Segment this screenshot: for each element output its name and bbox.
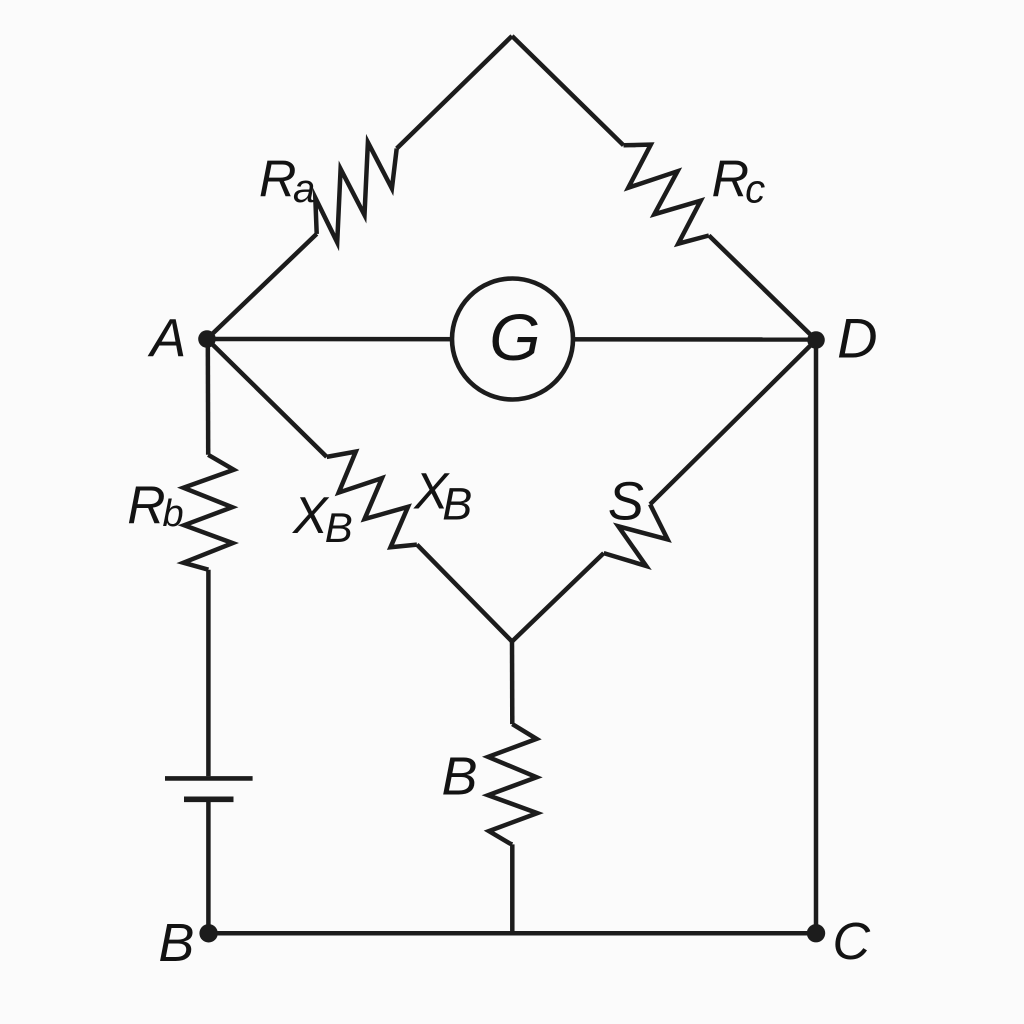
wire node M down to resistor B [510, 642, 515, 725]
svg-text:A: A [147, 309, 186, 369]
svg-text:XB: XB [292, 487, 353, 551]
node D [807, 331, 825, 349]
wire Ra to top apex [397, 36, 512, 149]
wire A to resistor Ra [207, 234, 317, 339]
wire node D to resistor S [650, 340, 816, 504]
svg-text:D: D [837, 307, 877, 370]
wire A to D through galvanometer [207, 337, 816, 342]
wire top apex to resistor Rc [512, 36, 624, 145]
wire battery to node B [206, 802, 211, 933]
resistor S [604, 504, 668, 566]
wire Rb to battery [206, 570, 211, 777]
svg-text:B: B [158, 913, 194, 973]
svg-text:Ra: Ra [259, 151, 315, 211]
battery short plate [184, 796, 234, 802]
wire A to resistor XB [207, 339, 327, 457]
wire Rc to node D [709, 236, 816, 341]
node A [198, 330, 216, 348]
resistor Rb [183, 455, 233, 570]
wire resistor B to bottom wire [510, 844, 515, 933]
svg-text:C: C [833, 913, 871, 971]
wire A down to resistor Rb [206, 339, 211, 455]
wire node D to node C [814, 340, 819, 933]
galvanometer U1 circle [452, 279, 573, 400]
battery long plate [165, 776, 253, 781]
svg-text:G: G [489, 300, 540, 374]
wire S to node M [512, 553, 604, 641]
svg-text:XB: XB [413, 463, 472, 530]
svg-text:Rc: Rc [712, 151, 766, 212]
node C [807, 924, 825, 942]
node B [199, 924, 217, 942]
wire XB to node M [417, 545, 512, 642]
resistor XB [327, 452, 417, 548]
resistor Rc [624, 145, 709, 244]
svg-text:Rb: Rb [127, 476, 183, 535]
resistor Ra [315, 142, 396, 242]
svg-text:B: B [442, 747, 478, 807]
svg-text:S: S [608, 472, 644, 532]
bottom wire node B to node C [208, 931, 816, 936]
resistor B [488, 724, 537, 844]
